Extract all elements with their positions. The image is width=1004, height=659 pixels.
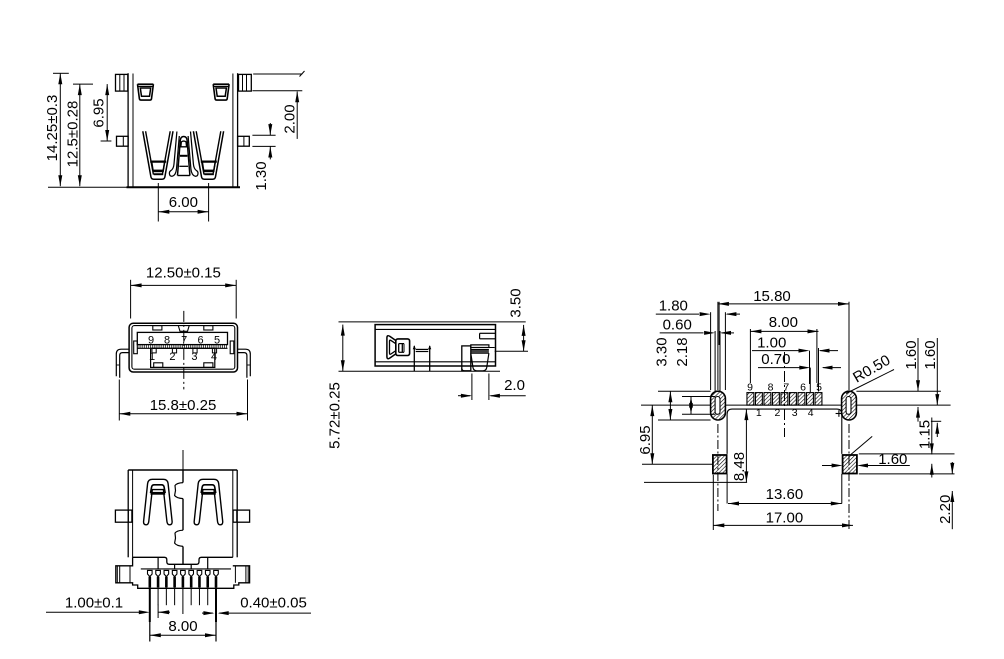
dimension 2.00 — [253, 73, 302, 75]
view E reference cross — [836, 413, 843, 415]
view E left square pad — [713, 455, 727, 474]
svg-text:9: 9 — [148, 335, 154, 347]
svg-text:13.60: 13.60 — [766, 486, 804, 503]
view E right oval pad — [842, 391, 857, 420]
view C solder pins — [148, 570, 153, 576]
dimension 1.15 — [931, 418, 933, 455]
svg-text:1.15: 1.15 — [917, 420, 934, 449]
dimension 6.95 — [101, 140, 112, 142]
svg-text:1.00±0.1: 1.00±0.1 — [65, 595, 123, 612]
svg-text:1.00: 1.00 — [757, 335, 786, 352]
view A center ground spring left leg — [169, 132, 179, 177]
view E square leader line — [851, 436, 872, 454]
svg-text:8.00: 8.00 — [769, 314, 798, 331]
view E right square pad — [843, 455, 857, 474]
svg-text:0.40±0.05: 0.40±0.05 — [240, 595, 307, 612]
view E right centerline — [848, 424, 850, 531]
view E left oval pad — [711, 391, 726, 420]
dimension 8.00 view E — [749, 329, 751, 383]
dimension 15.8±0.25 — [118, 380, 120, 421]
svg-text:3: 3 — [191, 351, 197, 363]
view B tongue — [137, 332, 227, 344]
svg-text:2.00: 2.00 — [281, 104, 298, 133]
view A left contact cup — [138, 84, 154, 100]
svg-text:1.60: 1.60 — [903, 340, 920, 369]
view C right hairpin contact — [194, 479, 223, 525]
dimension 1.30 — [252, 134, 275, 136]
svg-text:6.95: 6.95 — [91, 98, 108, 127]
dimension 3.50 — [495, 350, 528, 352]
view B centerline — [183, 311, 185, 390]
svg-text:15.8±0.25: 15.8±0.25 — [150, 397, 217, 414]
view D board lock leg — [462, 346, 471, 371]
view B lower contact 1 — [152, 348, 156, 353]
svg-text:0.70: 0.70 — [761, 351, 790, 368]
svg-text:14.25±0.3: 14.25±0.3 — [44, 95, 61, 162]
svg-text:8: 8 — [768, 381, 774, 393]
dimension 8.48 — [745, 409, 747, 482]
svg-text:6.00: 6.00 — [169, 194, 198, 211]
svg-text:8.00: 8.00 — [168, 618, 197, 635]
view A shell left wall — [127, 73, 129, 187]
view A center ground spring right leg — [188, 132, 198, 177]
view D board line — [339, 370, 501, 372]
svg-text:6: 6 — [198, 335, 204, 347]
view B left side slot — [134, 341, 138, 354]
view B top wall right notch — [204, 326, 213, 330]
view D top reference line — [339, 321, 526, 323]
view A left V spring — [143, 131, 173, 179]
dimension 6.00 — [157, 183, 159, 222]
dimension 1.60 second — [936, 338, 938, 405]
view B lower contact 2 — [172, 348, 176, 353]
dimension 2.18 — [682, 396, 715, 398]
view B left board-lock leg — [116, 349, 129, 376]
view B top wall center notch — [178, 326, 189, 332]
view A center tower contact — [178, 137, 190, 176]
view A right contact cup — [213, 84, 229, 100]
svg-text:0.60: 0.60 — [663, 317, 692, 334]
svg-text:15.80: 15.80 — [753, 288, 791, 305]
view A top-left mounting tab — [116, 74, 128, 91]
view A right V spring — [193, 131, 223, 179]
view B tongue contact hatch — [139, 345, 226, 349]
svg-text:5: 5 — [214, 335, 220, 347]
svg-text:9: 9 — [747, 381, 753, 393]
view E body bottom reference line — [644, 481, 747, 483]
svg-text:1.80: 1.80 — [659, 298, 688, 315]
view E oval top reference lines — [658, 390, 711, 392]
dimension 17.00 — [712, 475, 714, 530]
view C seam notch upper — [175, 483, 183, 499]
dimension 5.72±0.25 — [342, 325, 344, 372]
view D horn contact — [387, 336, 396, 359]
view B shell outline — [129, 323, 237, 372]
view D body outline — [375, 325, 495, 366]
svg-text:3.30: 3.30 — [654, 337, 671, 366]
dimension 13.60 — [728, 503, 842, 505]
view C right side tab — [233, 510, 250, 522]
svg-text:2: 2 — [169, 351, 175, 363]
view B cavity bottom right tab — [204, 363, 213, 368]
dimension 2.0 — [471, 374, 473, 401]
view B lower contact 3 — [193, 348, 197, 353]
view E pad row baseline — [641, 404, 711, 406]
svg-text:2.18: 2.18 — [674, 337, 691, 366]
view C lower block outline — [133, 557, 233, 564]
view C right peg hatch — [245, 566, 247, 583]
view B right board-lock leg — [238, 349, 251, 376]
view E square top reference line — [859, 453, 955, 455]
dimension 3.30 — [658, 419, 711, 421]
dimension 1.60 first — [917, 338, 919, 391]
view C centerline seam — [182, 450, 184, 470]
svg-text:1.30: 1.30 — [253, 161, 270, 190]
svg-text:6.95: 6.95 — [637, 425, 654, 454]
view B cavity bottom left tab — [154, 363, 163, 368]
view E middle centerline — [784, 352, 786, 437]
svg-text:5.72±0.25: 5.72±0.25 — [327, 382, 344, 449]
view D top-right notch — [480, 332, 496, 334]
view A shell right wall — [237, 73, 239, 187]
svg-text:3.50: 3.50 — [507, 288, 524, 317]
view D leg serration area — [489, 347, 495, 349]
dimension 14.25±0.3 — [53, 72, 69, 74]
view C left hairpin contact — [144, 479, 173, 525]
view C staggered pin tails — [157, 558, 159, 569]
svg-text:4: 4 — [211, 351, 217, 363]
view C center seam line — [182, 470, 184, 483]
view A right side square tab — [238, 136, 250, 146]
view C shell box — [128, 469, 237, 471]
svg-text:6: 6 — [800, 381, 806, 393]
svg-text:17.00: 17.00 — [766, 509, 804, 526]
view B right side slot — [230, 341, 234, 354]
view A baseline — [48, 186, 127, 188]
view C left peg hatch — [116, 566, 118, 583]
dimension 12.5±0.28 — [73, 83, 93, 85]
view E square bottom reference line — [859, 473, 955, 475]
dimension 2.20 — [951, 462, 953, 474]
svg-text:1.60: 1.60 — [922, 340, 939, 369]
view C seam notch lower — [175, 530, 183, 546]
svg-text:8: 8 — [164, 335, 170, 347]
dimension 15.80 — [717, 302, 719, 390]
svg-text:12.50±0.15: 12.50±0.15 — [146, 265, 221, 282]
svg-text:2.20: 2.20 — [937, 495, 954, 524]
view B lower contact 4 — [212, 348, 216, 353]
dimension 6.95 view E — [651, 405, 653, 464]
view B lower cavity — [151, 348, 215, 367]
svg-text:8.48: 8.48 — [731, 452, 748, 481]
view C left side tab — [115, 510, 131, 522]
dimension R0.50 — [846, 370, 894, 394]
view A left side square tab — [117, 136, 129, 146]
svg-text:2.0: 2.0 — [504, 377, 525, 394]
view D solder tail staple — [413, 346, 415, 371]
dimension 12.50±0.15 — [130, 280, 132, 319]
dimension 8.00 view C — [150, 634, 216, 636]
view B top wall left notch — [153, 326, 162, 330]
svg-text:7: 7 — [181, 335, 187, 347]
view A top-right mounting tab — [239, 74, 252, 91]
view E body outline — [727, 409, 842, 454]
view E left centerline — [717, 424, 719, 511]
view E square center reference line — [642, 463, 713, 465]
svg-text:5: 5 — [816, 381, 822, 393]
view E solder pads row — [747, 393, 754, 406]
svg-text:12.5±0.28: 12.5±0.28 — [64, 101, 81, 168]
view C pin comb line — [141, 568, 231, 570]
svg-text:1: 1 — [149, 351, 155, 363]
